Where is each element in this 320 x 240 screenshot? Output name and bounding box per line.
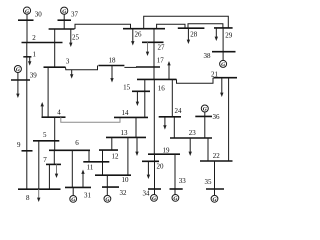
svg-text:G: G (25, 9, 29, 15)
wire 16-24 (171, 79, 173, 116)
wire 22-35 (214, 161, 216, 189)
wire 5-8 (38, 141, 40, 189)
load arrow bus 39 (16, 80, 19, 98)
svg-text:38: 38 (204, 52, 212, 60)
svg-text:36: 36 (213, 113, 221, 121)
bus 22 (200, 160, 233, 162)
bus 20 (142, 160, 159, 162)
svg-text:29: 29 (225, 31, 233, 39)
wire 16-21 (177, 78, 214, 84)
bus 23 (170, 137, 212, 139)
svg-text:14: 14 (122, 109, 130, 117)
svg-text:2: 2 (32, 34, 36, 42)
wire 10-32 (106, 175, 108, 187)
svg-text:G: G (213, 197, 217, 203)
wire 25-26 (75, 24, 131, 29)
wire 21-22 (228, 78, 230, 161)
wire 8-9 (26, 151, 28, 189)
load arrow bus 28 (187, 28, 190, 44)
load arrow bus 7 (55, 164, 58, 178)
svg-text:10: 10 (122, 176, 130, 184)
bus 6 (49, 149, 90, 151)
wire 7-8 (48, 164, 50, 189)
svg-text:G: G (105, 197, 109, 203)
load arrow bus 8 (37, 189, 40, 202)
svg-text:22: 22 (213, 152, 221, 160)
load arrow bus 26 (131, 29, 134, 46)
load arrow bus 29 (215, 28, 218, 41)
svg-text:G: G (203, 107, 207, 113)
load arrow bus 31 (up) (81, 170, 84, 188)
svg-text:G: G (62, 9, 66, 15)
load arrow bus 1 (28, 57, 31, 66)
bus 3 (44, 66, 66, 68)
wire 23-24 (173, 117, 175, 138)
svg-text:33: 33 (179, 177, 187, 185)
bus 18 (98, 65, 124, 67)
svg-text:23: 23 (189, 129, 197, 137)
wire 6-11 (88, 150, 90, 162)
load arrow bus 27 (146, 42, 149, 56)
svg-text:28: 28 (190, 31, 198, 39)
load arrow bus 20 (147, 161, 150, 179)
bus 14 (114, 116, 148, 118)
bus 16 (137, 78, 177, 80)
load arrow bus 16 (up) (167, 61, 170, 79)
generator G32 (104, 187, 111, 203)
bus 37 (58, 19, 72, 21)
wire 10-13 (127, 137, 129, 175)
svg-text:35: 35 (205, 178, 213, 186)
svg-text:G: G (71, 197, 75, 203)
svg-text:9: 9 (17, 141, 21, 149)
bus 11 (83, 161, 109, 163)
wire 2-30 (26, 20, 28, 42)
bus 8 (18, 188, 61, 190)
wire 28-29 (188, 24, 223, 28)
bus 12 (99, 149, 118, 151)
load arrow bus 23 (189, 138, 192, 156)
generator G38 (220, 52, 227, 68)
svg-text:1: 1 (32, 51, 36, 59)
bus 29 (214, 27, 233, 29)
wire 4-14 (61, 117, 120, 122)
generator G31 (70, 187, 77, 203)
bus 5 (33, 140, 59, 142)
svg-text:19: 19 (163, 146, 171, 154)
svg-text:31: 31 (84, 191, 92, 199)
svg-text:34: 34 (143, 189, 151, 197)
bus 26 (123, 28, 165, 30)
bus 15 (132, 90, 150, 92)
wire 23-36 (204, 116, 206, 138)
svg-text:G: G (173, 196, 177, 202)
bus 38 (212, 51, 236, 53)
svg-text:8: 8 (26, 194, 30, 202)
wire 26-29 (144, 16, 229, 29)
load arrow bus 4 (up) (41, 102, 44, 117)
generator G34 (151, 189, 158, 202)
generator G35 (211, 189, 218, 203)
bus 1 (23, 56, 31, 58)
bus 24 (159, 116, 181, 118)
bus 32 (102, 186, 119, 188)
bus 34 (148, 188, 161, 190)
wire 26-27 17-27 16-17 (153, 29, 155, 80)
svg-text:32: 32 (120, 189, 128, 197)
wire 6-31 (71, 150, 73, 187)
wire 15-16 14-15 (144, 79, 146, 117)
generator G36 (201, 105, 208, 116)
wire 1-2 1-39 (26, 43, 28, 81)
bus 9 (22, 150, 33, 152)
wire 19-20 20-34 (154, 154, 156, 189)
generator G33 (172, 189, 179, 202)
wire 17-18 (124, 66, 136, 68)
bus 25 (49, 28, 75, 30)
bus 31 (65, 186, 91, 188)
svg-text:21: 21 (211, 71, 219, 79)
bus 28 (178, 27, 205, 29)
svg-text:13: 13 (121, 129, 129, 137)
bus 27 (142, 41, 164, 43)
svg-text:26: 26 (135, 31, 143, 39)
svg-text:3: 3 (66, 58, 70, 66)
wire 6-7 (53, 150, 55, 164)
svg-text:12: 12 (112, 152, 120, 160)
svg-text:30: 30 (35, 11, 43, 19)
wire 3-4 (47, 67, 49, 117)
bus 19 (148, 153, 180, 155)
load arrow bus 25 (69, 29, 72, 47)
svg-text:5: 5 (43, 131, 47, 139)
bus 7 (46, 163, 61, 165)
wire 29-38 (222, 28, 224, 52)
svg-text:24: 24 (175, 107, 183, 115)
wire 12-13 (111, 137, 113, 150)
load arrow bus 18 (110, 66, 113, 83)
svg-text:27: 27 (158, 44, 166, 52)
svg-text:37: 37 (71, 10, 79, 18)
wire 4-5 5-6 (54, 117, 56, 150)
load arrow bus 15 (136, 91, 139, 106)
wire 9-39 (26, 80, 28, 151)
wire 11-12 10-11 (102, 150, 104, 175)
svg-text:17: 17 (157, 57, 165, 65)
svg-text:15: 15 (123, 84, 131, 92)
load arrow bus 24 (163, 117, 166, 130)
wire 25-37 (63, 20, 65, 29)
load arrow bus 13 (135, 137, 138, 156)
svg-text:20: 20 (157, 163, 165, 171)
wire 19-33 (174, 154, 176, 189)
bus 10 (95, 174, 131, 176)
svg-text:39: 39 (30, 72, 38, 80)
bus 17 (136, 66, 160, 68)
wire 22-23 (207, 138, 209, 161)
load arrow bus 21 (220, 78, 223, 97)
svg-text:G: G (221, 62, 225, 68)
svg-text:25: 25 (72, 33, 80, 41)
svg-text:4: 4 (57, 109, 61, 117)
svg-text:G: G (16, 67, 20, 73)
wire 16-19 (153, 79, 155, 154)
svg-text:11: 11 (87, 164, 94, 172)
svg-text:G: G (152, 196, 156, 202)
svg-text:7: 7 (43, 156, 47, 164)
bus 21 (214, 77, 238, 79)
bus 2 (22, 42, 63, 44)
bus 30 (18, 19, 34, 21)
bus 13 (106, 136, 146, 138)
svg-text:16: 16 (158, 85, 166, 93)
svg-text:18: 18 (109, 57, 117, 65)
load arrow bus 3 (70, 70, 73, 79)
wire 2-25 and wire 2-3 (54, 29, 56, 67)
generator G30 (23, 7, 30, 20)
bus 33 (170, 188, 183, 190)
svg-text:6: 6 (75, 139, 79, 147)
bus 39 (11, 79, 30, 81)
wire 26-28 (157, 24, 185, 29)
wire 13-14 (135, 117, 137, 137)
generator G39 (14, 66, 21, 81)
bus 35 (206, 188, 224, 190)
generator G37 (61, 7, 68, 20)
bus 36 (195, 115, 212, 117)
wire 3-18 (66, 66, 98, 70)
bus 4 (42, 116, 66, 118)
